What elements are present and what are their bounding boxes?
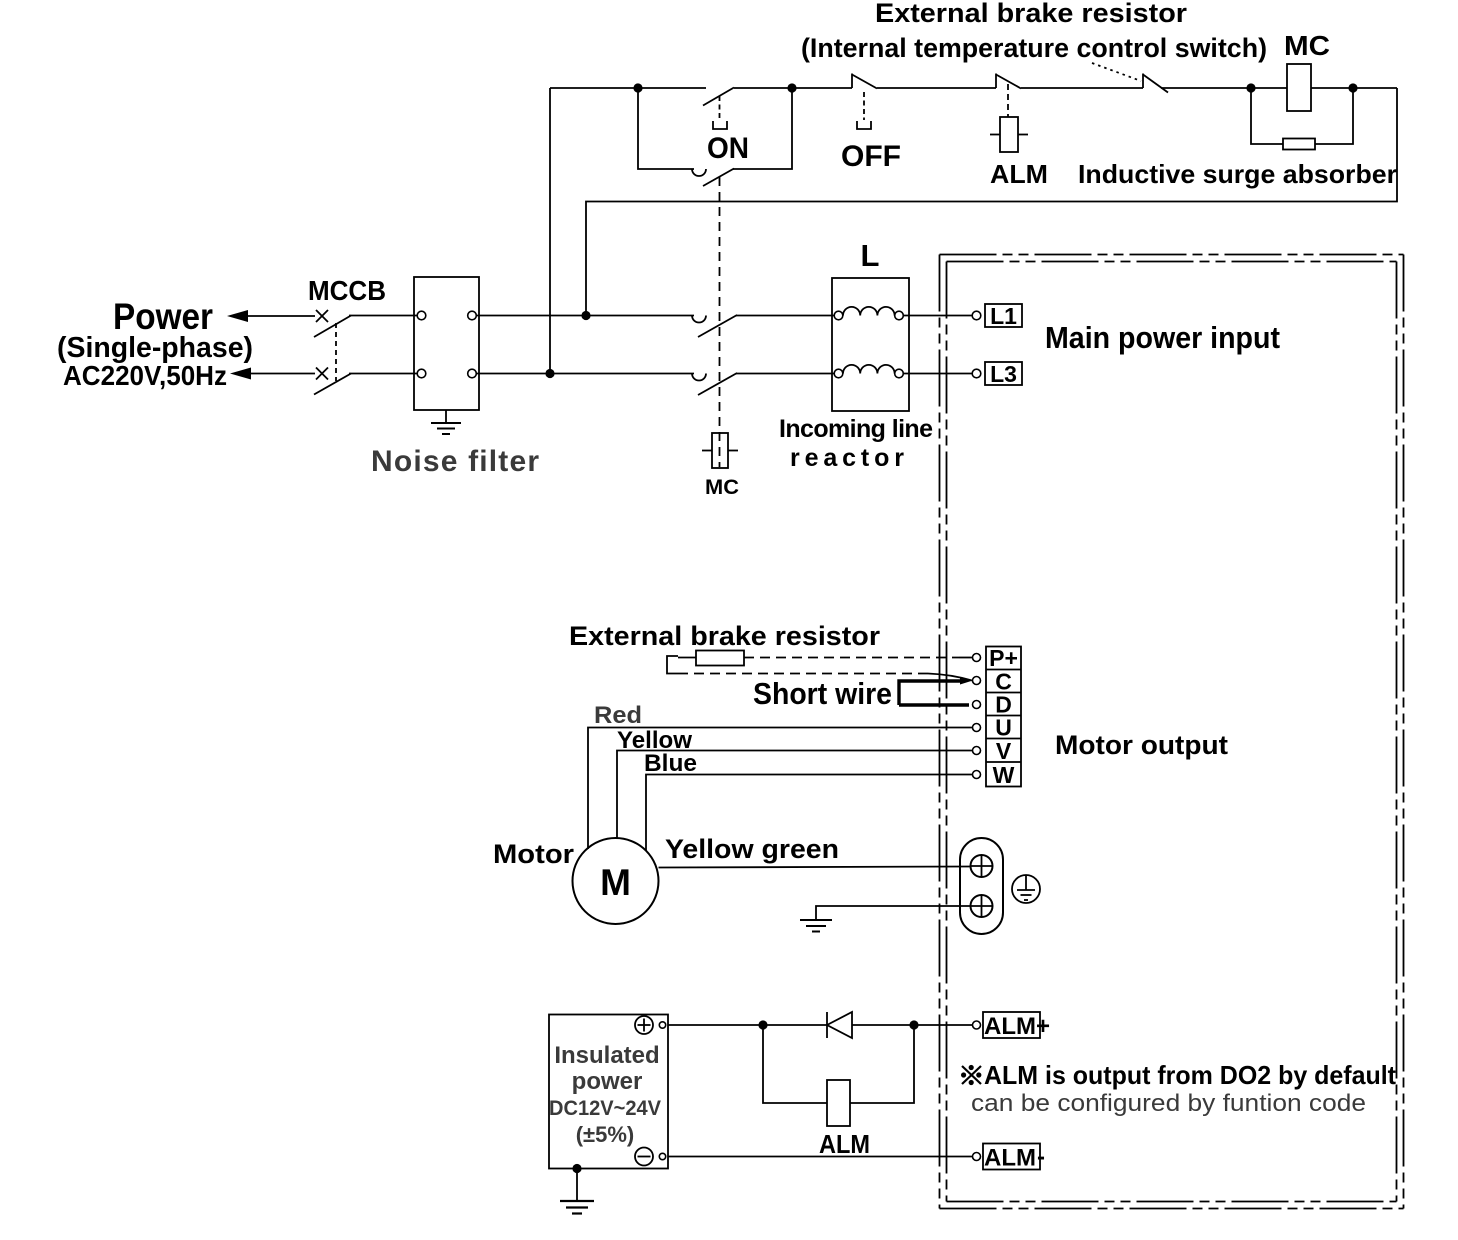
terminal circle L3 [972, 369, 981, 378]
switch OFF actuator dashed [863, 92, 865, 120]
reactor box L [832, 278, 909, 411]
contact ALM tick [995, 74, 997, 89]
wire: V phase yellow [617, 751, 973, 839]
terminal plus of supply [635, 1016, 653, 1034]
relay branch right [850, 1025, 914, 1103]
terminal circle ALM+ [973, 1021, 981, 1029]
ALM coil actuator dashed [1007, 84, 1009, 117]
contact MC main pole 1 blade [698, 315, 737, 337]
svg-text:P+: P+ [989, 645, 1018, 671]
switch ON button cap [713, 121, 727, 129]
svg-text:power: power [572, 1068, 643, 1095]
wire: U phase red [588, 728, 973, 850]
svg-text:External brake resistor: External brake resistor [875, 0, 1188, 28]
contactor coil MC (bottom) [712, 433, 728, 468]
inductor L1 winding [834, 311, 843, 320]
node: dot control return on L1 line [581, 311, 590, 320]
wire: control top rail segment F [1311, 87, 1397, 89]
svg-text:Insulated: Insulated [554, 1042, 659, 1069]
svg-text:Red: Red [594, 702, 642, 729]
contact MC main pole 2 blade [698, 373, 737, 395]
svg-text:can be configured by funtion c: can be configured by funtion code [971, 1090, 1366, 1117]
svg-text:ALM: ALM [984, 1145, 1036, 1172]
wire: supply ground stem [576, 1169, 578, 1202]
svg-text:(±5%): (±5%) [576, 1122, 635, 1147]
node: dot supply ground [572, 1164, 581, 1173]
svg-text:Noise filter: Noise filter [371, 445, 539, 478]
node: junction dot left of ON [633, 83, 642, 92]
wire: MC contact to reactor L1 [736, 315, 834, 317]
contactor coil MC (top) [1287, 64, 1311, 111]
surge loop right wire [1315, 88, 1353, 144]
wire: control top rail segment E [1161, 87, 1287, 89]
contact temperature switch blade [1143, 75, 1168, 93]
ground noise filter [445, 410, 447, 423]
svg-text:Motor output: Motor output [1055, 730, 1228, 760]
svg-text:-: - [1037, 1144, 1045, 1171]
wire: self-hold branch right [733, 88, 792, 169]
svg-text:DC12V~24V: DC12V~24V [549, 1097, 661, 1120]
contact ALM blade [996, 75, 1021, 89]
temperature switch dotted leader [1092, 63, 1141, 81]
noise filter box [414, 277, 479, 410]
svg-text:External brake resistor: External brake resistor [569, 621, 881, 651]
node: junction dot surge left [1246, 83, 1255, 92]
terminal block box [986, 647, 1021, 787]
svg-text:U: U [995, 715, 1012, 741]
svg-text:L1: L1 [990, 303, 1017, 329]
inductor L3 winding [834, 369, 843, 378]
svg-text:Short wire: Short wire [753, 676, 892, 711]
svg-text:W: W [993, 762, 1015, 788]
breaker MCCB pole 1 cross [316, 310, 328, 322]
inductive surge absorber loop wire [1251, 88, 1283, 144]
switch OFF tick [851, 74, 853, 89]
svg-text:Motor: Motor [493, 839, 575, 869]
enclosure drive unit border inner [947, 262, 1397, 1202]
svg-text:(Internal temperature control: (Internal temperature control switch) [801, 33, 1267, 63]
wire: plus rail [668, 1024, 828, 1026]
terminal circle ALM- [973, 1153, 981, 1161]
wire: yellow green ground wire [659, 867, 971, 868]
svg-text:OFF: OFF [841, 140, 901, 173]
arrow to power L1 [227, 310, 248, 322]
node: dot left of diode branch [758, 1020, 767, 1029]
wire: control top rail segment D [1021, 87, 1143, 89]
wire: control top rail segment B [734, 87, 852, 89]
wire: control top rail segment C [877, 87, 996, 89]
relay coil ALM (output) [827, 1080, 850, 1126]
svg-text:ALM: ALM [990, 159, 1048, 189]
svg-text:ALM: ALM [984, 1013, 1036, 1040]
terminal minus of supply [635, 1148, 653, 1166]
diode (freewheel) [826, 1012, 828, 1038]
svg-text:reactor: reactor [790, 444, 904, 472]
svg-text:+: + [1036, 1013, 1050, 1040]
svg-text:Power: Power [113, 296, 213, 337]
wire: dashed brake resistor to P+ [744, 657, 959, 659]
svg-text:V: V [996, 738, 1012, 764]
ground terminal stadium [960, 838, 1003, 934]
svg-text:Incoming line: Incoming line [779, 415, 933, 443]
svg-text:ALM: ALM [819, 1129, 870, 1159]
svg-text:Main power input: Main power input [1045, 320, 1280, 355]
contact MC main pole 1 hook [692, 316, 706, 323]
wire: reactor to L3 terminal [904, 373, 973, 375]
breaker MCCB pole 2 blade [314, 374, 351, 395]
wire: reactor to L1 terminal [904, 315, 973, 317]
terminal circles P+ C D U V W [973, 654, 981, 662]
wire: W phase blue [646, 775, 973, 852]
wire: noise filter to MC contact L3 [476, 373, 694, 375]
switch ON actuator dashed [719, 96, 721, 120]
reference mark symbol [962, 1066, 981, 1084]
wire: self-hold branch [638, 88, 694, 169]
svg-text:Yellow green: Yellow green [665, 834, 839, 864]
resistor external brake [696, 651, 744, 666]
coil ALM side leads [990, 134, 1000, 136]
insulated power supply box [549, 1015, 668, 1169]
screw terminal upper [971, 855, 993, 877]
terminal circle L1 [972, 311, 981, 320]
wire: MC contact to reactor L3 [736, 373, 834, 375]
arrow to power L3 [230, 368, 251, 380]
wire: MCCB to noise filter L3 [349, 373, 417, 375]
node: dot control feed on L3 line [545, 369, 554, 378]
brake resistor connector bracket [667, 656, 678, 674]
contact MC auxiliary blade [703, 169, 734, 187]
motor M circle [573, 838, 659, 924]
protective earth symbol [1012, 875, 1040, 903]
svg-text:L: L [861, 238, 880, 273]
node: dot right of diode branch [909, 1020, 918, 1029]
relay coil ALM (control) [1000, 117, 1018, 152]
relay branch left [763, 1025, 827, 1103]
svg-text:ON: ON [707, 132, 749, 165]
breaker MCCB link dashed [335, 323, 337, 381]
svg-text:Blue: Blue [644, 750, 697, 777]
svg-text:ALM is output from DO2 by de: ALM is output from DO2 by default [984, 1060, 1396, 1090]
contact MC main pole 2 hook [692, 374, 706, 381]
wire: minus rail [668, 1156, 973, 1158]
ground symbol (motor side) [800, 919, 832, 921]
contact temperature switch tick [1142, 74, 1144, 89]
wire: control circuit left feed vertical [549, 88, 551, 374]
wire: ground wire from lower screw [816, 906, 971, 920]
svg-text:MCCB: MCCB [308, 275, 386, 306]
contact MC auxiliary hook [692, 169, 706, 176]
breaker MCCB pole 1 blade [314, 316, 351, 338]
wire: control top rail segment A [550, 87, 706, 89]
noise filter terminals [417, 311, 426, 320]
short wire jumper C to D [899, 681, 962, 705]
wire to brake resistor [678, 657, 696, 659]
wire: dashed brake resistor to C [678, 673, 928, 675]
node: junction dot surge right [1348, 83, 1357, 92]
svg-text:AC220V,50Hz: AC220V,50Hz [63, 360, 227, 391]
svg-text:M: M [600, 862, 631, 903]
resistor surge absorber [1283, 139, 1315, 150]
terminal box L3 [985, 362, 1022, 385]
wire: plus rail right of diode [852, 1024, 972, 1026]
switch ON pushbutton blade [703, 88, 734, 106]
wire: control right vertical and bottom return [586, 88, 1397, 316]
wire: noise filter to MC contact L1 [476, 315, 694, 317]
svg-text:L3: L3 [990, 361, 1017, 387]
wire: MCCB to noise filter L1 [349, 315, 417, 317]
node: junction dot right of ON [787, 83, 796, 92]
terminal box ALM+ [983, 1012, 1040, 1038]
terminal box L1 [985, 304, 1022, 327]
mechanical link dashed to MC coil [719, 177, 721, 467]
svg-text:MC: MC [1284, 30, 1330, 61]
svg-text:MC: MC [705, 476, 739, 499]
ground symbol (supply) [560, 1200, 594, 1202]
screw terminal lower [971, 895, 993, 917]
enclosure drive unit border outer [940, 255, 1404, 1209]
svg-text:Inductive surge absorber: Inductive surge absorber [1078, 159, 1397, 189]
terminal box ALM- [983, 1144, 1040, 1170]
switch OFF button cap [857, 121, 871, 129]
switch OFF blade [852, 75, 877, 89]
breaker MCCB pole 2 cross [316, 368, 328, 380]
